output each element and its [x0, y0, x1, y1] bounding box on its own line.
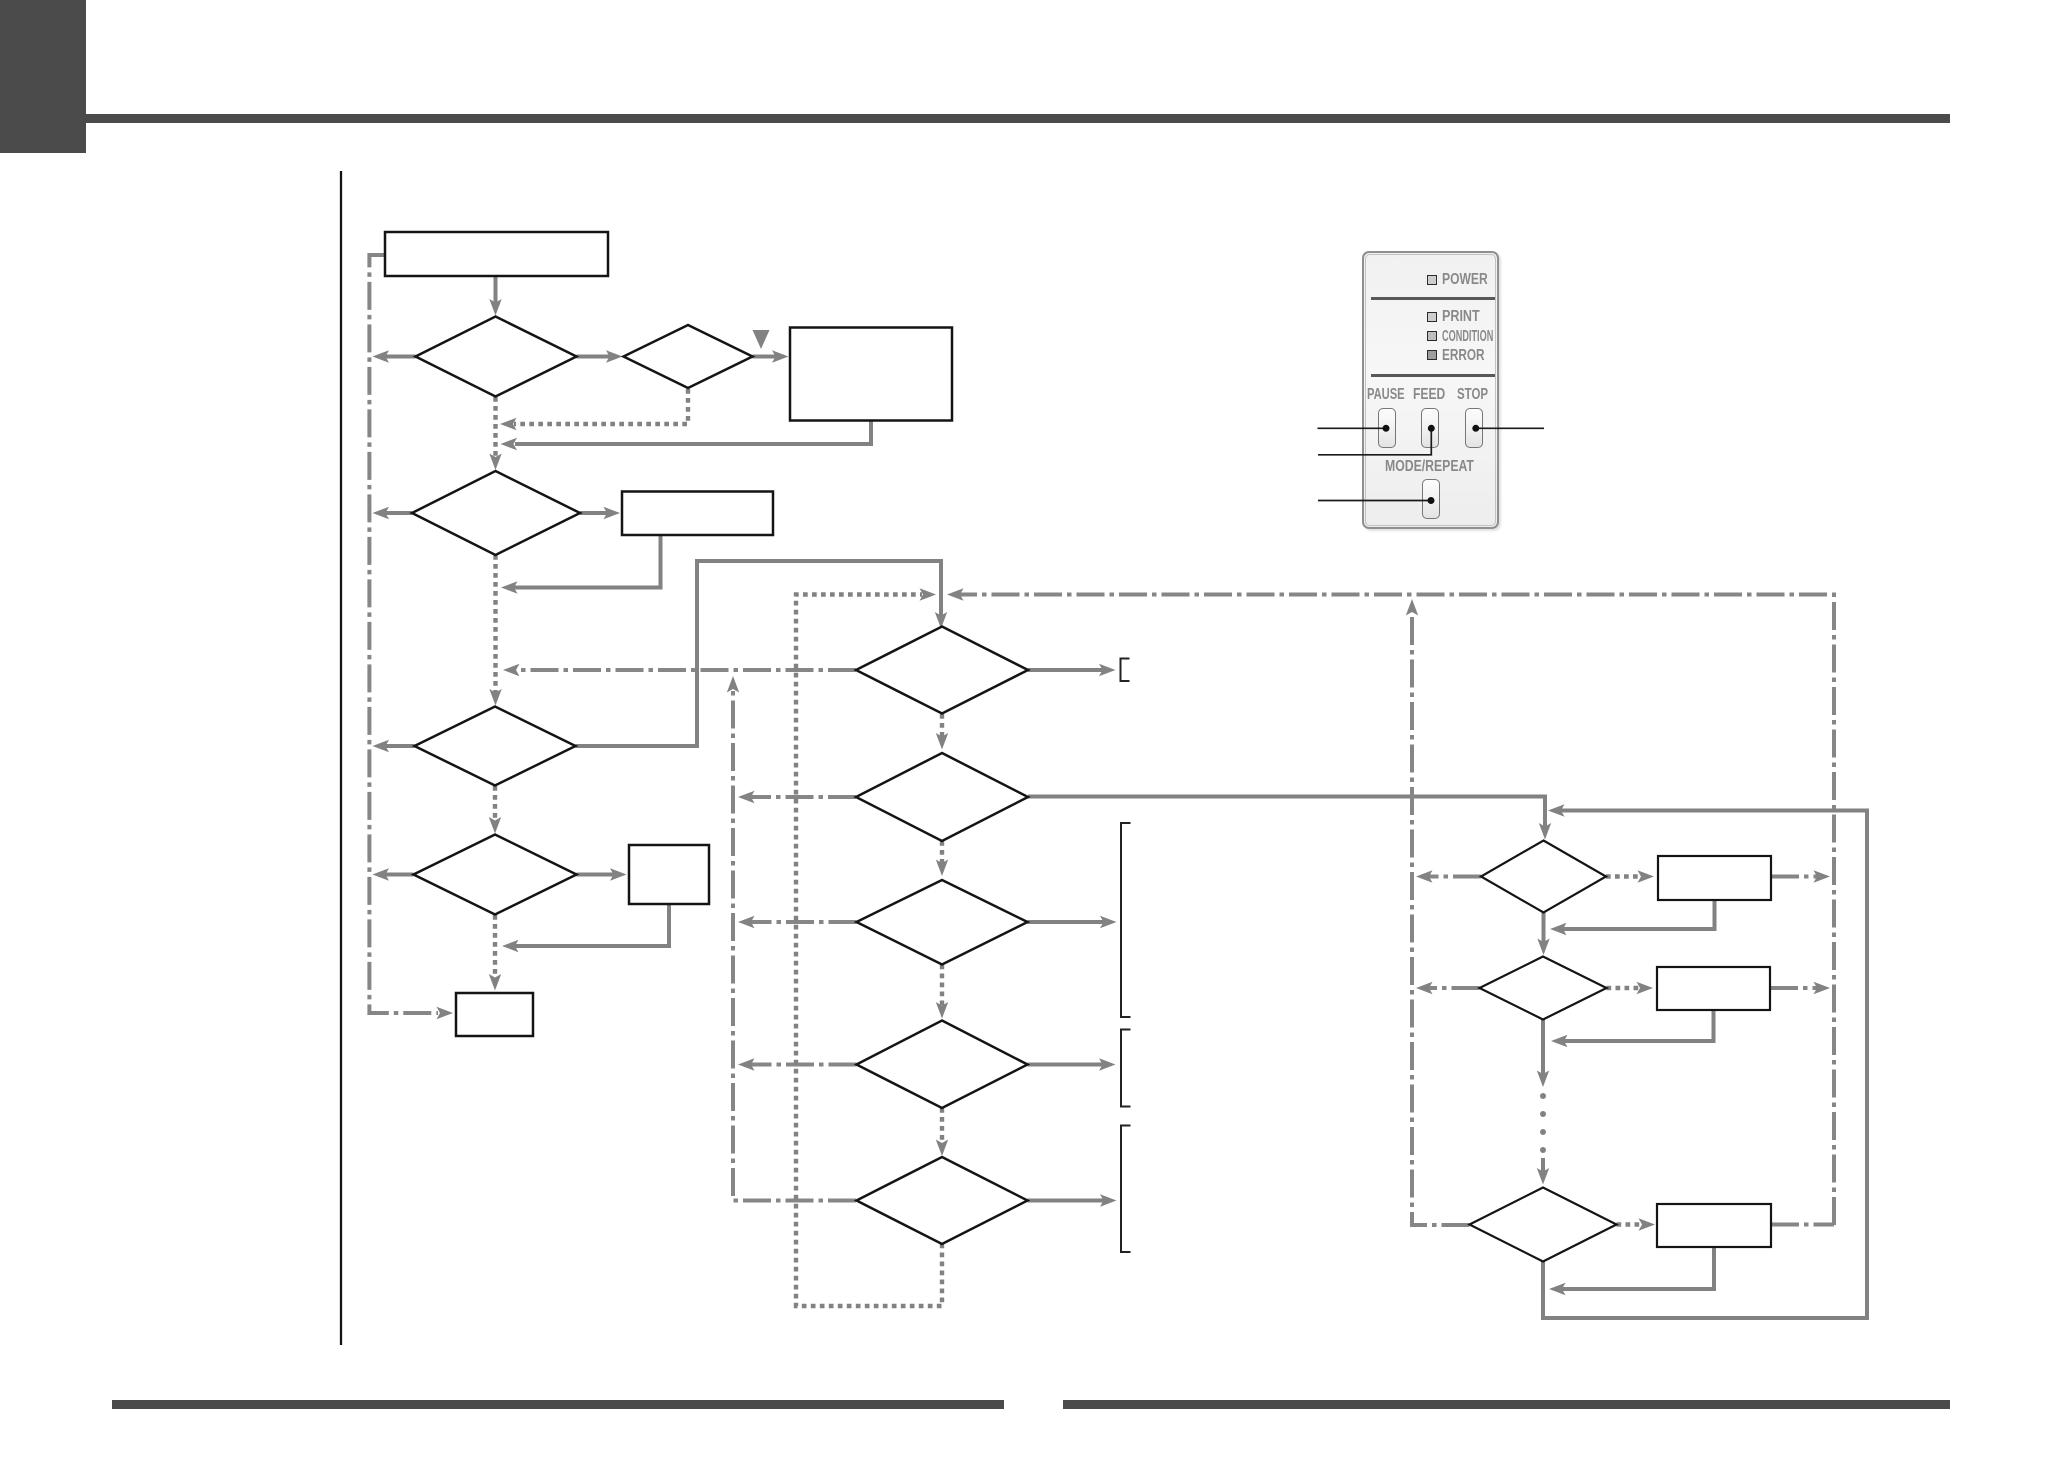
wire d5 left exit: [373, 868, 414, 880]
wire dotted d1 to d3: [489, 397, 501, 470]
decision diamond E: [857, 1157, 1028, 1244]
decision diamond A: [856, 627, 1028, 714]
bracket E note: [1121, 1126, 1131, 1253]
wire dotted R1 to boxR1: [1606, 870, 1654, 882]
PAUSE label: [1367, 387, 1405, 403]
wire box4 bottom return: [502, 904, 669, 952]
PRINT LED: [1427, 312, 1437, 322]
wire E right to bracket: [1028, 1194, 1117, 1206]
POWER LED: [1427, 275, 1437, 285]
wire d5 to box4: [577, 868, 627, 880]
decision diamond R3: [1470, 1188, 1617, 1262]
FEED button: [1421, 408, 1439, 448]
wire boxR3 bottom return: [1549, 1247, 1714, 1295]
wire dash-dot boxR1 right exit: [1771, 870, 1830, 882]
wire dotted d5 to box5: [489, 915, 501, 991]
wire d1 to d2: [577, 350, 623, 362]
process box BR1: [1658, 856, 1771, 900]
wire dash-dot middle exit bus vertical: [727, 676, 856, 1201]
STOP label: [1457, 387, 1488, 403]
wire dotted R3 to boxR3: [1617, 1218, 1656, 1230]
wire dotted R2 to boxR2: [1607, 982, 1654, 994]
wire dash-dot exit bus row d-A: [503, 664, 856, 676]
bracket D note: [1121, 1030, 1131, 1107]
wire boxR1 bottom return: [1550, 900, 1715, 935]
decision diamond R2: [1480, 957, 1607, 1020]
wire dotted C to D: [936, 965, 948, 1019]
decision diamond D: [857, 1021, 1028, 1109]
wire dash-dot left restart bus into box5: [369, 255, 453, 1019]
bracket C note: [1121, 823, 1131, 1017]
wire dash-dot diamond B left exit: [738, 791, 856, 803]
wire B right to section R: [1028, 797, 1551, 840]
footer rule left: [112, 1400, 1004, 1409]
decision diamond d3: [412, 471, 580, 555]
CONDITION label: [1442, 329, 1493, 345]
wire dotted B to C: [936, 841, 948, 876]
footer rule right: [1063, 1400, 1950, 1409]
left margin rule: [340, 171, 342, 1345]
decision diamond B: [856, 753, 1028, 841]
callout line to PAUSE: [1318, 427, 1387, 429]
wire A right to bracket: [1028, 664, 1116, 676]
wire D right to bracket: [1028, 1058, 1116, 1070]
wire dotted d4 to d5: [489, 786, 501, 834]
wire dotted A to B: [936, 714, 948, 750]
bracket A note: [1121, 659, 1130, 682]
wire R1 to R2: [1537, 913, 1549, 956]
process box BR2: [1657, 967, 1770, 1010]
ERROR label: [1442, 348, 1485, 364]
FEED button dot: [1428, 425, 1435, 432]
MODE button dot: [1428, 497, 1435, 504]
wire continuation into R3: [1537, 1158, 1549, 1185]
STOP button dot: [1472, 425, 1479, 432]
wire boxR2 bottom return: [1551, 1010, 1714, 1047]
MODE/REPEAT label: [1385, 459, 1474, 475]
decision diamond d5: [414, 835, 577, 915]
wire dash-dot right mode rail: [1406, 599, 1470, 1225]
wire d4 left exit: [373, 740, 415, 752]
wire R2 bottom continuation arrow: [1537, 1020, 1549, 1088]
callout line from FEED: [1318, 428, 1431, 455]
callout line from STOP: [1476, 427, 1544, 429]
wire R3 bottom return loop to R1: [1543, 804, 1867, 1318]
wire dash-dot boxR2 right exit: [1770, 982, 1830, 994]
process box BR3: [1657, 1204, 1771, 1247]
callout line to MODE: [1318, 500, 1431, 502]
FEED label: [1413, 387, 1445, 403]
wire dotted d3 to d4: [489, 555, 501, 706]
wire d1 left exit: [373, 350, 416, 362]
POWER label: [1442, 272, 1488, 288]
decision diamond d2: [624, 325, 753, 388]
process box B5: [456, 993, 533, 1036]
wire dash-dot boxR3 right exit: [1771, 1223, 1834, 1227]
marker triangle above d2 exit: [753, 330, 770, 349]
wire d4 right to diamond A: [576, 561, 948, 746]
PRINT label: [1442, 309, 1480, 325]
wire d3 left exit: [373, 507, 413, 519]
wire dash-dot diamond D left exit: [738, 1058, 857, 1070]
PAUSE button: [1378, 408, 1396, 448]
wire d2 to box2: [753, 350, 789, 362]
wire box3 bottom return: [501, 535, 661, 594]
header rule: [86, 114, 1950, 123]
wire dash-dot R1 left exit: [1416, 870, 1481, 882]
continuation dots: [1540, 1093, 1546, 1153]
operation panel: [1362, 251, 1499, 529]
decision diamond R1: [1481, 841, 1606, 913]
process box B1 start: [385, 232, 608, 276]
wire dash-dot top right rail: [947, 588, 1834, 1225]
ERROR LED: [1427, 350, 1437, 360]
decision diamond d4: [415, 707, 576, 786]
process box B2: [790, 328, 952, 421]
CONDITION LED: [1427, 331, 1437, 341]
wire box1 to d1: [489, 276, 501, 316]
wire dotted repeat loop E back to A: [796, 588, 942, 1306]
decision diamond C: [857, 880, 1028, 965]
header corner block: [0, 0, 86, 153]
wire dash-dot diamond C left exit: [738, 916, 857, 928]
process box B3: [622, 492, 773, 536]
decision diamond d1: [416, 317, 577, 397]
wire d3 to box3: [580, 507, 620, 519]
wire C right to bracket: [1028, 916, 1117, 928]
divider 2: [1371, 374, 1495, 377]
wire dash-dot R2 left exit: [1416, 982, 1480, 994]
MODE/REPEAT button: [1422, 479, 1440, 519]
wire box2 bottom return: [501, 421, 872, 451]
wire dotted d2 bottom return: [500, 389, 688, 430]
divider 1: [1371, 297, 1495, 300]
process box B4: [629, 845, 709, 904]
PAUSE button dot: [1383, 425, 1390, 432]
wire dotted D to E: [936, 1108, 948, 1156]
STOP button: [1465, 408, 1483, 448]
